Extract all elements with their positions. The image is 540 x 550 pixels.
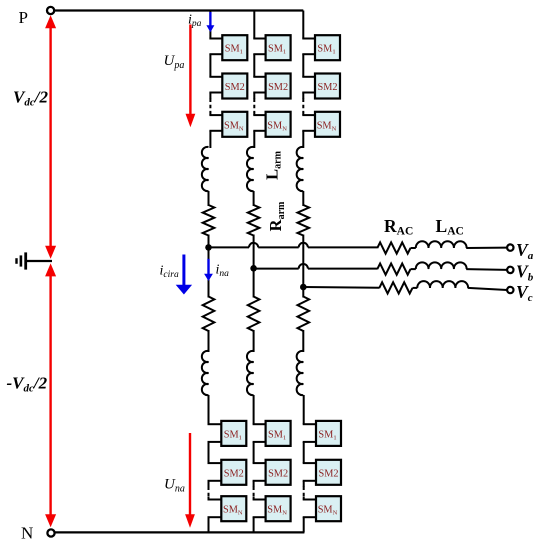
svg-text:SM2: SM2 [318, 468, 338, 479]
svg-text:SM2: SM2 [268, 82, 288, 93]
svg-text:SM2: SM2 [317, 82, 337, 93]
svg-text:SM2: SM2 [225, 82, 245, 93]
svg-text:SM2: SM2 [224, 468, 244, 479]
svg-text:P: P [19, 8, 28, 27]
svg-text:SM2: SM2 [268, 468, 288, 479]
svg-text:N: N [21, 524, 33, 543]
